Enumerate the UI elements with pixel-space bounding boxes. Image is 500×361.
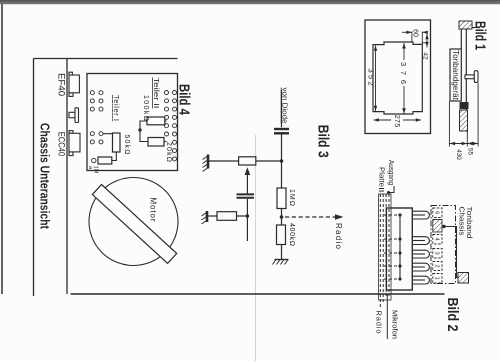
svg-text:4: 4 bbox=[434, 238, 440, 241]
svg-text:EF40: EF40 bbox=[57, 73, 67, 96]
svg-text:6: 6 bbox=[434, 211, 440, 214]
svg-text:275: 275 bbox=[393, 115, 400, 128]
svg-text:Bild 3: Bild 3 bbox=[315, 125, 332, 158]
svg-text:60: 60 bbox=[412, 29, 419, 37]
svg-text:20kΩ: 20kΩ bbox=[165, 142, 172, 162]
svg-text:Chassis Unteransicht: Chassis Unteransicht bbox=[38, 123, 52, 230]
svg-text:3: 3 bbox=[434, 252, 440, 255]
svg-text:Platte: Platte bbox=[378, 167, 385, 187]
svg-text:430: 430 bbox=[455, 149, 462, 160]
svg-text:55: 55 bbox=[467, 148, 474, 156]
svg-text:a: a bbox=[87, 166, 93, 170]
svg-text:Bild 1: Bild 1 bbox=[472, 21, 489, 50]
svg-text:Motor: Motor bbox=[149, 198, 158, 222]
svg-text:100kΩ: 100kΩ bbox=[142, 95, 149, 121]
svg-text:Ausgang: Ausgang bbox=[387, 160, 394, 185]
svg-text:Mikrofon: Mikrofon bbox=[390, 310, 397, 339]
svg-text:400kΩ: 400kΩ bbox=[288, 223, 295, 246]
svg-text:Radio: Radio bbox=[334, 223, 343, 250]
svg-text:Tonbandgerät: Tonbandgerät bbox=[451, 50, 460, 101]
svg-text:376: 376 bbox=[399, 62, 408, 84]
svg-text:Teiler I: Teiler I bbox=[112, 95, 121, 121]
svg-text:Chassis: Chassis bbox=[458, 207, 467, 236]
svg-text:Radio: Radio bbox=[375, 311, 384, 334]
svg-text:352: 352 bbox=[367, 69, 376, 86]
svg-text:1: 1 bbox=[434, 277, 440, 280]
svg-text:2: 2 bbox=[434, 264, 440, 267]
svg-text:Bild 2: Bild 2 bbox=[444, 298, 461, 332]
svg-text:42: 42 bbox=[421, 52, 428, 60]
svg-text:1MΩ: 1MΩ bbox=[288, 189, 295, 206]
svg-text:50kΩ: 50kΩ bbox=[123, 135, 130, 155]
svg-text:ECC40: ECC40 bbox=[57, 132, 67, 157]
svg-text:Bild 4: Bild 4 bbox=[176, 84, 193, 115]
svg-text:Teiler II: Teiler II bbox=[152, 78, 161, 109]
